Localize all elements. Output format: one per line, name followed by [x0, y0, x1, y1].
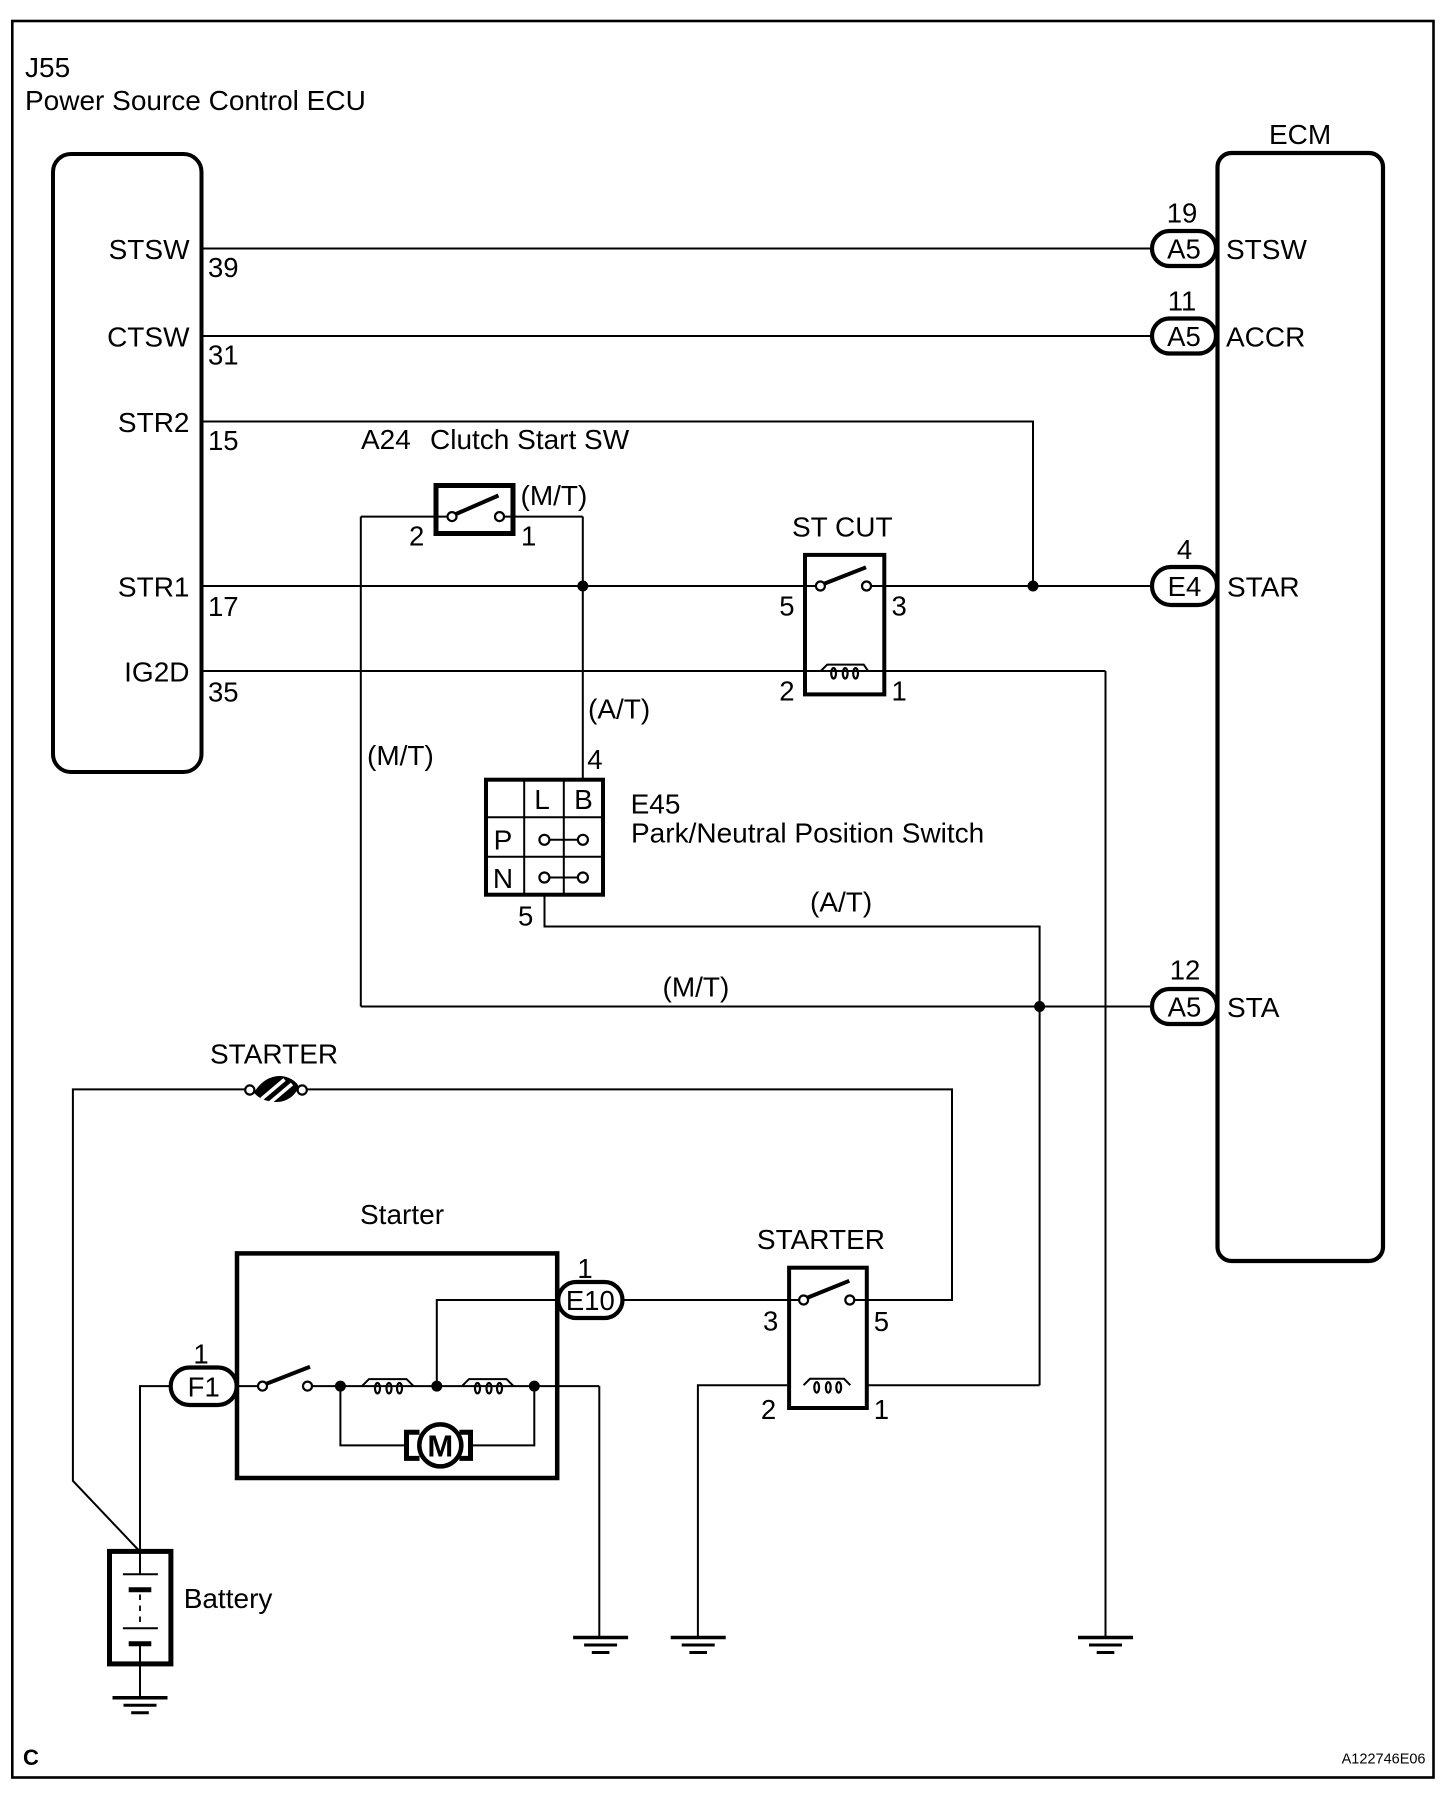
svg-text:Battery: Battery [184, 1583, 273, 1614]
svg-text:ECM: ECM [1269, 119, 1331, 150]
svg-text:(M/T): (M/T) [663, 972, 730, 1003]
pin 1 label above F1 [193, 1339, 208, 1370]
wire fuse left branch [73, 1089, 246, 1551]
svg-text:2: 2 [409, 521, 424, 552]
svg-text:(A/T): (A/T) [588, 694, 650, 725]
svg-text:1: 1 [521, 521, 536, 552]
svg-text:A24: A24 [361, 424, 411, 455]
svg-text:J55: J55 [25, 52, 70, 83]
wire clutch pin1 down to E45 [505, 517, 583, 780]
battery plates [123, 1574, 158, 1644]
svg-text:5: 5 [518, 901, 533, 932]
E45 column header L [534, 784, 550, 815]
Battery label [184, 1583, 273, 1614]
E45 row N [493, 863, 513, 894]
svg-text:15: 15 [208, 425, 239, 456]
drawing number [1342, 1752, 1426, 1768]
connector oval A5 (STA) [1152, 989, 1217, 1024]
svg-text:ST CUT: ST CUT [792, 512, 893, 543]
wire STSW J55-ECM [204, 248, 1153, 250]
clutch pin 1 label [521, 521, 536, 552]
ECM box [1218, 153, 1384, 1261]
pin label IG2D (J55 35) [124, 657, 238, 708]
wire fuse to starter relay pin5 [307, 1089, 952, 1300]
starter coil 1 [362, 1379, 414, 1393]
svg-text:CTSW: CTSW [107, 322, 190, 353]
svg-text:STSW: STSW [1226, 234, 1307, 265]
svg-text:STARTER: STARTER [210, 1039, 338, 1070]
starter junction node b [431, 1381, 442, 1392]
svg-text:N: N [493, 863, 513, 894]
ST CUT contacts [816, 567, 871, 590]
svg-text:IG2D: IG2D [124, 657, 189, 688]
wire STR1 left [204, 585, 817, 587]
svg-text:STA: STA [1227, 992, 1280, 1023]
wire clutch MT vertical [361, 517, 447, 1007]
svg-text:4: 4 [587, 744, 602, 775]
svg-text:ACCR: ACCR [1226, 322, 1305, 353]
park/neutral position switch E45 table [486, 780, 603, 895]
motor M bracket right [459, 1432, 470, 1458]
clutch start switch A24 box [436, 486, 513, 534]
ST CUT pin 1 [892, 676, 907, 707]
motor tap wires [340, 1386, 534, 1445]
pin 1 label above E10 [577, 1253, 592, 1284]
wire CTSW-ACCR [204, 335, 1153, 337]
Starter label [360, 1199, 444, 1230]
STARTER relay pin 1 [874, 1394, 889, 1425]
wire E10 internal [437, 1300, 558, 1386]
junction node clutch/STR1 [577, 581, 588, 592]
svg-text:(A/T): (A/T) [810, 887, 872, 918]
ECM label [1269, 119, 1331, 150]
svg-text:39: 39 [208, 252, 239, 283]
motor M circle [419, 1424, 461, 1466]
pin label STA (ECM A5 12) [1170, 955, 1280, 1024]
label (M/T) lower [663, 972, 730, 1003]
ground starter [573, 1638, 628, 1653]
STARTER relay contacts [799, 1281, 854, 1305]
connector oval E4 (STAR) [1152, 567, 1217, 605]
starter junction node a [335, 1381, 346, 1392]
E45 label [631, 789, 985, 849]
relay ST CUT box [805, 555, 884, 695]
E45 N contacts [539, 873, 588, 883]
svg-text:B: B [574, 784, 593, 815]
wire STA [361, 1006, 1152, 1008]
wire relay coil to STA vertical [867, 1384, 1040, 1386]
fuse STARTER symbol [245, 1076, 307, 1104]
junction node STA [1034, 1001, 1045, 1012]
svg-text:STAR: STAR [1227, 572, 1300, 603]
svg-text:M: M [427, 1429, 453, 1464]
pin label STR1 (J55 17) [118, 572, 239, 623]
ground starter relay [671, 1638, 726, 1653]
fuse STARTER label [210, 1039, 338, 1070]
svg-text:E45: E45 [631, 789, 681, 820]
label (M/T) mid [367, 740, 434, 771]
E45 pin 4 label [587, 744, 602, 775]
svg-text:3: 3 [892, 591, 907, 622]
svg-text:STARTER: STARTER [757, 1224, 885, 1255]
svg-text:1: 1 [193, 1339, 208, 1370]
svg-text:STR2: STR2 [118, 407, 190, 438]
svg-text:(M/T): (M/T) [521, 480, 588, 511]
starter junction node c [529, 1381, 540, 1392]
svg-text:P: P [494, 825, 513, 856]
label (M/T) at clutch [521, 480, 588, 511]
svg-text:F1: F1 [188, 1372, 220, 1403]
STARTER relay coil [804, 1379, 851, 1393]
svg-text:2: 2 [761, 1394, 776, 1425]
wire relay pin2 to ground [698, 1385, 787, 1637]
pin label STSW (J55 39) [109, 234, 239, 283]
ST CUT pin 3 [892, 591, 907, 622]
clutch pin 2 label [409, 521, 424, 552]
svg-text:A5: A5 [1167, 234, 1201, 265]
svg-text:Park/Neutral Position Switch: Park/Neutral Position Switch [631, 818, 984, 849]
connector oval E10 [558, 1282, 622, 1318]
wire F1 to battery [140, 1386, 171, 1574]
battery box [110, 1551, 171, 1664]
svg-text:C: C [23, 1745, 39, 1770]
STARTER relay pin 2 [761, 1394, 776, 1425]
svg-text:A5: A5 [1167, 321, 1201, 352]
starter coil 2 [462, 1379, 514, 1393]
ST CUT pin 5 [779, 591, 794, 622]
svg-text:STR1: STR1 [118, 572, 190, 603]
motor M bracket left [407, 1432, 420, 1458]
svg-text:E4: E4 [1168, 571, 1202, 602]
relay STARTER box [789, 1268, 867, 1408]
svg-text:L: L [534, 784, 550, 815]
STARTER relay pin 5 [874, 1306, 889, 1337]
svg-text:35: 35 [208, 677, 239, 708]
svg-text:17: 17 [208, 591, 239, 622]
label A24 Clutch Start SW [361, 424, 630, 455]
ground battery [113, 1698, 168, 1713]
starter assembly box [237, 1253, 557, 1478]
pin label STSW (ECM A5 19) [1167, 198, 1308, 266]
wire STR1 right to E4 [871, 585, 1152, 587]
svg-text:STSW: STSW [109, 234, 190, 265]
svg-text:2: 2 [779, 676, 794, 707]
connector oval A5 (STSW) [1152, 231, 1216, 266]
pin label STR2 (J55 15) [118, 407, 239, 456]
pin label CTSW (J55 31) [107, 322, 239, 371]
ground ECM circuit [1078, 1638, 1133, 1653]
J55 title [25, 52, 366, 116]
E45 column header B [574, 784, 593, 815]
STARTER relay label [757, 1224, 885, 1255]
svg-text:A122746E06: A122746E06 [1342, 1752, 1426, 1768]
svg-text:Clutch Start SW: Clutch Start SW [430, 424, 630, 455]
svg-text:Starter: Starter [360, 1199, 444, 1230]
wire battery to ground [139, 1644, 141, 1698]
E45 row P [494, 825, 513, 856]
svg-text:(M/T): (M/T) [367, 740, 434, 771]
ST CUT coil [821, 665, 868, 679]
svg-text:1: 1 [577, 1253, 592, 1284]
svg-text:E10: E10 [566, 1285, 615, 1316]
wire E45 pin5 AT path [545, 895, 1040, 1385]
junction node STR2/STR1 [1028, 581, 1039, 592]
connector oval F1 [171, 1368, 237, 1406]
svg-text:5: 5 [779, 591, 794, 622]
ECU J55 box [53, 154, 202, 772]
page letter C [23, 1745, 39, 1770]
svg-text:3: 3 [763, 1306, 778, 1337]
svg-text:1: 1 [892, 676, 907, 707]
svg-text:4: 4 [1177, 534, 1192, 565]
svg-text:1: 1 [874, 1394, 889, 1425]
label (A/T) lower [810, 887, 872, 918]
svg-text:11: 11 [1168, 286, 1197, 317]
ST CUT pin 2 [779, 676, 794, 707]
starter main wire [237, 1386, 600, 1637]
label (A/T) upper [588, 694, 650, 725]
E45 pin 5 label [518, 901, 533, 932]
pin label ACCR (ECM A5 11) [1168, 286, 1306, 353]
wire E10 to relay pin3 [623, 1299, 800, 1301]
svg-text:A5: A5 [1168, 992, 1202, 1023]
clutch switch contacts [448, 496, 505, 522]
svg-text:19: 19 [1167, 198, 1198, 229]
ST CUT label [792, 512, 893, 543]
svg-text:31: 31 [208, 340, 239, 371]
pin label STAR (ECM E4 4) [1177, 534, 1300, 603]
svg-text:12: 12 [1170, 955, 1201, 986]
svg-text:Power Source Control ECU: Power Source Control ECU [25, 85, 366, 116]
E45 P contacts [539, 835, 588, 845]
wire STR2 [204, 422, 1034, 587]
connector oval A5 (ACCR) [1152, 319, 1216, 354]
svg-text:5: 5 [874, 1306, 889, 1337]
STARTER relay pin 3 [763, 1306, 778, 1337]
wire IG2D [204, 671, 1106, 1638]
starter internal switch [258, 1367, 312, 1391]
